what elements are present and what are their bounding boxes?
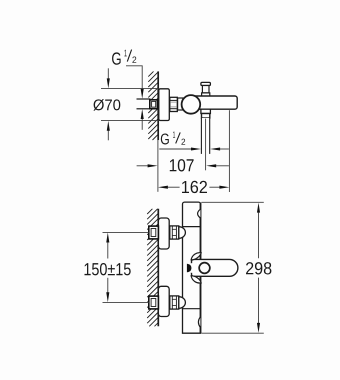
thermostat knob circle (side view) [182, 95, 201, 114]
wall face extension line (side view) [157, 140, 159, 192]
wall section (front view) hatching [147, 209, 158, 326]
label Ø70 [93, 99, 120, 111]
shower hose pipe (side view) [201, 118, 209, 154]
dimension G 1/2 (shower outlet) arrows [159, 147, 229, 150]
dimension 150±15 extension lines [103, 232, 149, 302]
label 298 [246, 262, 271, 274]
wall face line (side view) [157, 71, 159, 140]
s-union hex nut (side view) [170, 97, 178, 111]
diverter silhouette arc (front view) [198, 209, 201, 218]
upper union dome (front view) [179, 227, 186, 239]
hose axis center line [205, 119, 207, 171]
dimension 107 [137, 164, 229, 167]
adapter cylinder (side view) [178, 98, 183, 110]
lever capsule (front view) [192, 259, 238, 276]
shower outlet band (side view) [202, 114, 210, 119]
label G 1/2 (wall supply) [112, 50, 136, 65]
wall union nut in wall (side view) [150, 100, 158, 109]
lower wall nut (front view) [149, 296, 159, 309]
lever pivot circle [199, 263, 210, 274]
upper wall nut (front view) [149, 226, 159, 239]
dimension 162 [158, 186, 230, 189]
dimension 150±15 line and arrows [106, 233, 109, 303]
upper escutcheon (front view) [158, 218, 169, 249]
extension line from body front (side view) [228, 110, 230, 192]
supply pipe through wall [137, 99, 151, 109]
wall section (side view) hatching [148, 71, 158, 140]
outlet silhouette arc (front view) [198, 317, 200, 328]
label 162 [182, 181, 207, 193]
safety stop button (black) [187, 264, 192, 273]
wall face line (front view) [157, 209, 159, 326]
label 107 [170, 159, 194, 171]
dimension 298 line and arrows [257, 203, 260, 333]
dimension 298 extension lines [202, 202, 264, 333]
body right edge (thick) [200, 203, 202, 334]
capsule left edge softener [191, 263, 193, 273]
faucet body (side view) [195, 96, 237, 109]
faucet body (front view) [183, 202, 201, 333]
dimension Ø70 bottom arrow [107, 121, 110, 141]
body seam lower [183, 308, 201, 310]
diverter knob (side view) [201, 82, 211, 96]
leader G 1/2 (wall supply) with arrows [126, 66, 144, 130]
lever top ear [191, 253, 201, 260]
upper s-union nut (front view) [170, 226, 179, 239]
label 150±15 [85, 263, 131, 275]
dimension Ø70 top arrow [107, 68, 110, 88]
lower union dome (front view) [179, 297, 186, 309]
label G 1/2 (shower outlet) [161, 131, 185, 144]
lever bottom ear [191, 276, 201, 283]
lower s-union nut (front view) [170, 296, 179, 309]
escutcheon (side view) [159, 89, 170, 121]
dimension Ø70 extension lines [101, 89, 159, 121]
lower escutcheon (front view) [158, 286, 169, 316]
shower outlet collar (side view) [201, 109, 211, 113]
body seam upper [183, 226, 201, 228]
